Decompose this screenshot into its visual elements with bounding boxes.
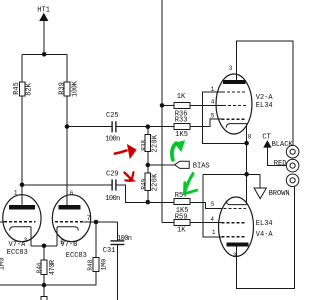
svg-text:1K5: 1K5 <box>175 131 188 139</box>
wire V7-B anode (R39 bottom to plate) <box>66 96 68 206</box>
wire R38 bottom stub <box>147 152 149 173</box>
wire R59 right to V4-A pin4 <box>190 222 222 224</box>
svg-text:ECC83: ECC83 <box>7 249 28 257</box>
tube V4-A envelope <box>219 197 254 256</box>
resistor R59 1K <box>174 220 190 226</box>
connector CT BLACK triangle <box>263 140 286 165</box>
node junction HT1 rail <box>42 52 47 57</box>
wire R49 bottom stub <box>147 190 149 202</box>
capacitor C25 100n <box>112 121 116 132</box>
svg-text:1M0: 1M0 <box>0 258 7 271</box>
svg-text:5: 5 <box>211 201 215 208</box>
wire R57 right jog to V4-A pin5 <box>190 202 219 208</box>
connector BROWN triangle <box>254 174 266 198</box>
svg-text:3: 3 <box>233 252 237 259</box>
svg-text:5: 5 <box>211 113 215 120</box>
vertical screen feed line <box>161 0 163 223</box>
annotation red arrow 2 <box>125 172 137 182</box>
wire V2-A pin1 / suppressor tie <box>203 92 245 143</box>
svg-text:8: 8 <box>248 134 252 141</box>
wire V7-A anode (R45 bottom to plate) <box>21 96 23 206</box>
node junction C29 tap <box>20 183 25 188</box>
svg-text:C29: C29 <box>106 171 119 179</box>
wire R59 left <box>162 222 174 224</box>
svg-text:CT: CT <box>262 133 270 141</box>
svg-text:1M0: 1M0 <box>101 259 108 271</box>
tube V4-A grid pin5 dashes <box>219 207 247 209</box>
wire R46 top stub <box>43 246 45 260</box>
node junction R38 top <box>146 124 151 129</box>
svg-text:100n: 100n <box>105 195 120 203</box>
wire R46 bottom stub <box>43 274 45 285</box>
annotation red arrow 1 <box>115 144 137 159</box>
resistor R47 partial bottom edge <box>41 285 47 300</box>
resistor R45 82K <box>19 82 25 96</box>
svg-text:C31: C31 <box>103 247 116 255</box>
svg-text:R39: R39 <box>59 82 67 95</box>
wire cathode tie to BROWN <box>203 173 260 175</box>
resistor R38 220K <box>145 134 151 151</box>
node junction BIAS <box>146 163 151 168</box>
svg-text:R59: R59 <box>175 213 188 221</box>
wire V7-A cathode lead <box>30 227 32 246</box>
tube V7-B cathode <box>57 227 78 231</box>
svg-text:4: 4 <box>210 216 214 223</box>
tube V2-A grid pin4 dashes <box>223 105 247 107</box>
svg-text:100n: 100n <box>117 235 132 243</box>
node junction ground bus <box>42 283 47 288</box>
annotation green arrow down <box>184 174 197 194</box>
svg-text:V4-A: V4-A <box>256 231 274 239</box>
svg-text:R33: R33 <box>175 117 188 125</box>
node junction cathode V2-A <box>244 141 249 146</box>
wire C25 left <box>67 126 112 128</box>
svg-text:3: 3 <box>229 65 233 72</box>
wire R39 top <box>66 54 68 82</box>
svg-text:1: 1 <box>14 189 18 196</box>
node junction C25 tap <box>65 124 70 129</box>
svg-text:100n: 100n <box>105 136 120 144</box>
svg-text:BIAS: BIAS <box>193 163 210 171</box>
svg-text:R48: R48 <box>87 259 94 270</box>
svg-text:100K: 100K <box>71 80 79 97</box>
node junction R36 <box>160 103 165 108</box>
capacitor C29 100n <box>112 179 116 190</box>
tube V4-A plate <box>227 243 249 247</box>
tube V7-B envelope <box>52 195 90 242</box>
wire V2-A anode to OT top <box>237 41 294 145</box>
wire C31 top lead <box>116 222 118 241</box>
svg-text:1K: 1K <box>177 93 186 101</box>
node junction V7 cathodes <box>42 244 47 249</box>
svg-text:8: 8 <box>60 239 64 246</box>
tube V4-A grid pin1 dashes <box>222 236 247 238</box>
tube V4-A cathode <box>226 201 246 205</box>
svg-text:1: 1 <box>212 229 216 236</box>
resistor R46 470R <box>41 260 47 275</box>
wire C29 left <box>22 184 112 186</box>
svg-text:R49: R49 <box>140 178 147 189</box>
svg-text:HT1: HT1 <box>37 7 50 15</box>
resistor R57 1K5 <box>174 199 190 205</box>
svg-text:RED: RED <box>274 160 287 168</box>
wire R45 top <box>21 54 23 82</box>
resistor R33 1K5 <box>174 123 190 129</box>
svg-text:V2-A: V2-A <box>256 94 274 102</box>
svg-text:EL34: EL34 <box>256 102 273 110</box>
wire cathode bus V2-A to V4-A <box>246 124 248 205</box>
svg-text:220K: 220K <box>151 173 159 192</box>
transformer terminal 2 <box>286 159 299 172</box>
wire C29 right jog to R57 row <box>116 185 174 202</box>
tube V2-A cathode <box>226 124 246 128</box>
wire V4-A pin1 / suppressor tie <box>203 174 221 237</box>
svg-text:6: 6 <box>70 190 74 197</box>
wire R33 right jog to V2-A pin5 <box>190 119 222 126</box>
wire R48 bottom stub <box>95 271 97 285</box>
wire C25 right to R33 <box>116 126 174 128</box>
capacitor C31 100n <box>110 241 124 245</box>
svg-text:BROWN: BROWN <box>269 190 290 198</box>
svg-text:EL34: EL34 <box>256 220 273 228</box>
node junction R49/C29 <box>146 200 151 205</box>
svg-text:R38: R38 <box>140 140 147 151</box>
resistor R48 1M0 <box>93 257 99 271</box>
svg-text:82K: 82K <box>26 82 34 95</box>
node BIAS tag <box>175 161 190 168</box>
tube V7-A grid dashes <box>0 221 36 223</box>
tube V2-A grid pin5 dashes <box>222 118 246 120</box>
tube V7-B plate <box>59 205 81 210</box>
wire cathode bus V7 <box>31 245 57 247</box>
tube V7-A plate <box>9 205 35 210</box>
tube V2-A envelope <box>216 74 252 134</box>
svg-text:C25: C25 <box>106 112 119 120</box>
wire R38 top stub <box>147 127 149 135</box>
svg-text:ECC83: ECC83 <box>66 252 87 260</box>
transformer terminal 1 <box>286 145 299 158</box>
node junction R48 top <box>94 220 99 225</box>
node junction cathode V4-A <box>244 172 249 177</box>
svg-text:1: 1 <box>211 86 215 93</box>
wire R36 right to V2-A pin4 <box>190 105 223 107</box>
tube V2-A grid pin1 dashes <box>222 91 247 93</box>
wire V7-B cathode lead <box>56 227 58 246</box>
tube V7-B grid dashes and pin7 lead <box>55 221 117 223</box>
wire R48 top stub <box>95 222 97 257</box>
transformer terminal 3 <box>286 174 299 187</box>
svg-text:1K: 1K <box>177 227 186 235</box>
svg-text:R45: R45 <box>13 82 21 95</box>
tube V4-A grid pin4 dashes <box>222 222 247 224</box>
svg-text:BLACK: BLACK <box>272 141 294 149</box>
wire V4-A anode to OT bottom <box>237 187 295 288</box>
wire ground bus <box>0 284 96 286</box>
wire R36 left <box>162 104 174 106</box>
resistor R49 220K <box>145 173 151 190</box>
node HT1 supply arrow <box>39 13 48 55</box>
resistor R39 100K <box>64 82 70 96</box>
wire BIAS tag lead <box>148 164 175 166</box>
wire C31 bottom lead <box>116 245 118 300</box>
svg-text:220K: 220K <box>151 134 159 153</box>
resistor R36 1K <box>174 103 190 109</box>
svg-text:4: 4 <box>211 99 215 106</box>
svg-text:3: 3 <box>24 237 28 244</box>
svg-text:470R: 470R <box>49 259 57 275</box>
tube V2-A plate <box>223 80 246 84</box>
tube V7-A cathode <box>10 227 32 231</box>
svg-text:7: 7 <box>87 215 91 222</box>
tube V7-A envelope <box>3 195 41 242</box>
annotation green arrow up <box>172 140 185 160</box>
svg-text:R46: R46 <box>36 262 43 273</box>
wire top rail HT1 <box>22 53 67 55</box>
